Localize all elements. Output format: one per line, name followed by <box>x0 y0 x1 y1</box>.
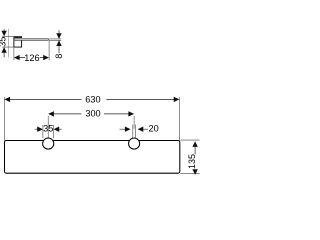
svg-text:126: 126 <box>24 53 39 63</box>
svg-text:35: 35 <box>43 124 53 134</box>
svg-text:8: 8 <box>54 54 64 59</box>
svg-text:300: 300 <box>85 109 100 119</box>
svg-text:35: 35 <box>0 37 7 47</box>
svg-text:630: 630 <box>85 94 100 104</box>
svg-text:135: 135 <box>187 154 197 169</box>
svg-text:20: 20 <box>148 124 158 134</box>
